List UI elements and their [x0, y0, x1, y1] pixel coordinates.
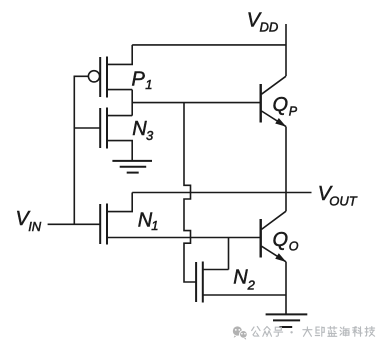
wire VDD rail horizontal: [132, 44, 286, 46]
wire node A down to N2 gate (vertical with two crossover hops): [184, 102, 196, 282]
wire N3 source lead to ground: [107, 141, 132, 161]
svg-text:P: P: [132, 68, 146, 90]
char 大: [303, 327, 312, 336]
svg-text:1: 1: [145, 77, 152, 92]
transistor N2: [196, 262, 203, 303]
transistor QO: [261, 211, 287, 262]
svg-text:N: N: [233, 267, 248, 289]
wire QP emitter / QO collector vertical (to VOUT): [285, 127, 287, 212]
transistor N1: [100, 204, 107, 245]
label QO: [273, 229, 299, 254]
char 公: [252, 327, 260, 337]
node VIN label: [16, 208, 42, 234]
wire VOUT line: [132, 192, 311, 194]
label N2: [233, 267, 255, 293]
node VOUT label: [318, 183, 358, 209]
char ·: [290, 331, 292, 333]
svg-text:DD: DD: [260, 20, 279, 35]
wire P1/N3 drain vertical: [131, 90, 133, 116]
wire QO base to N2 drain vertical: [228, 238, 230, 270]
char 海: [340, 327, 349, 336]
watermark icon (gray chat logo): [233, 326, 248, 339]
transistor P1: [88, 57, 107, 98]
wire VIN lead: [48, 223, 101, 225]
char 技: [365, 327, 375, 337]
transistor QP: [261, 76, 287, 127]
char 蓝: [328, 327, 337, 337]
label P1: [132, 68, 153, 92]
svg-text:O: O: [289, 239, 299, 253]
wire VDD vertical feed: [285, 24, 287, 76]
wire N1 source / QO base line: [107, 237, 260, 239]
svg-text:1: 1: [151, 218, 158, 233]
svg-text:P: P: [289, 104, 298, 118]
wire QO emitter down to ground: [285, 262, 287, 315]
wire N3 gate lead: [75, 127, 101, 129]
wire node A horizontal to QP base: [132, 102, 260, 104]
ground G2 (output stage): [266, 314, 308, 327]
char 号: [274, 327, 283, 336]
transistor N3: [100, 108, 107, 149]
wire N1 drain lead up to VOUT: [107, 193, 132, 212]
svg-text:2: 2: [247, 277, 256, 292]
wire N2 source lead to right rail: [203, 294, 286, 296]
svg-text:IN: IN: [28, 219, 42, 234]
ground G1 (below N3): [112, 161, 152, 173]
char 科: [353, 327, 362, 337]
node VDD label: [247, 10, 278, 35]
svg-text:Q: Q: [273, 229, 289, 251]
wire N2 drain lead: [203, 269, 229, 271]
char 众: [263, 327, 272, 337]
char 印: [315, 327, 324, 336]
svg-text:Q: Q: [273, 94, 289, 116]
label N1: [138, 210, 159, 234]
svg-text:OUT: OUT: [329, 193, 358, 208]
wire P1 drain to node A (drain lead, vertical to N3 drain): [107, 89, 132, 91]
wire N3 drain lead: [107, 115, 132, 117]
watermark text 公众号·大印蓝海科技 (approximated strokes): [252, 327, 375, 337]
wire left gate rail (P1 bubble + N3 gate + VIN): [74, 76, 88, 224]
wire P1 source to VDD rail: [107, 45, 132, 65]
label QP: [273, 94, 298, 119]
label N3: [132, 118, 154, 143]
svg-text:3: 3: [146, 128, 154, 143]
